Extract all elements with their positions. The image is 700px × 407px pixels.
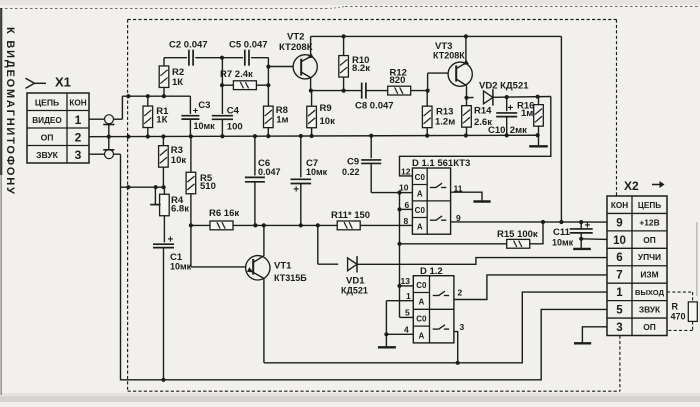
svg-text:2мк: 2мк xyxy=(510,125,527,136)
svg-text:13: 13 xyxy=(401,276,411,286)
svg-text:+: + xyxy=(293,184,299,195)
svg-text:ОП: ОП xyxy=(643,322,656,332)
svg-text:1К: 1К xyxy=(156,114,167,125)
svg-text:820: 820 xyxy=(390,75,406,86)
svg-text:КТ208К: КТ208К xyxy=(433,51,465,61)
svg-text:VT2: VT2 xyxy=(287,32,304,43)
svg-text:5: 5 xyxy=(405,308,410,318)
svg-text:11: 11 xyxy=(454,183,463,193)
svg-text:10мк: 10мк xyxy=(306,167,328,177)
svg-text:2: 2 xyxy=(75,130,82,144)
svg-text:КТ315Б: КТ315Б xyxy=(274,273,307,283)
svg-text:C8 0.047: C8 0.047 xyxy=(355,101,394,112)
svg-text:C4: C4 xyxy=(227,106,240,117)
svg-text:6: 6 xyxy=(405,200,410,210)
svg-text:470: 470 xyxy=(671,312,686,322)
svg-text:1: 1 xyxy=(406,291,411,301)
svg-text:10к: 10к xyxy=(171,155,187,166)
svg-text:1: 1 xyxy=(75,113,82,127)
svg-text:6.8к: 6.8к xyxy=(171,203,189,214)
svg-text:C0: C0 xyxy=(415,206,426,215)
svg-text:10мк: 10мк xyxy=(194,121,216,131)
svg-text:ОП: ОП xyxy=(643,235,656,245)
svg-text:C0: C0 xyxy=(415,173,426,182)
svg-text:А: А xyxy=(417,222,423,231)
svg-text:ЗВУК: ЗВУК xyxy=(36,150,59,160)
svg-text:C2 0.047: C2 0.047 xyxy=(169,40,208,51)
svg-text:100: 100 xyxy=(227,121,243,132)
svg-text:1.2м: 1.2м xyxy=(435,117,455,128)
svg-text:1м: 1м xyxy=(276,114,288,125)
svg-text:А: А xyxy=(417,189,423,198)
svg-text:C11: C11 xyxy=(553,227,571,238)
svg-text:4: 4 xyxy=(404,324,409,334)
svg-text:1м: 1м xyxy=(521,108,533,119)
svg-text:C0: C0 xyxy=(416,281,427,290)
svg-text:ВЫХОД: ВЫХОД xyxy=(635,288,665,297)
svg-text:+: + xyxy=(585,220,591,231)
svg-text:R11* 150: R11* 150 xyxy=(331,210,370,221)
svg-text:КОН: КОН xyxy=(69,98,86,107)
svg-text:3: 3 xyxy=(75,148,82,162)
svg-text:0.22: 0.22 xyxy=(342,167,360,177)
svg-text:1К: 1К xyxy=(172,77,183,88)
svg-text:3: 3 xyxy=(460,322,465,332)
svg-text:КТ208К: КТ208К xyxy=(279,42,313,53)
svg-text:R7 2.4к: R7 2.4к xyxy=(220,69,253,80)
svg-text:R15 100к: R15 100к xyxy=(497,229,538,240)
svg-text:C0: C0 xyxy=(416,315,427,324)
svg-text:D 1.1 561КТ3: D 1.1 561КТ3 xyxy=(412,158,470,169)
svg-text:VD2 КД521: VD2 КД521 xyxy=(479,81,529,92)
svg-text:8: 8 xyxy=(404,216,409,226)
svg-text:А: А xyxy=(419,331,425,340)
svg-text:10к: 10к xyxy=(320,116,336,127)
svg-text:УПЧИ: УПЧИ xyxy=(638,252,661,262)
svg-text:8.2к: 8.2к xyxy=(352,63,370,74)
svg-text:1: 1 xyxy=(616,287,623,299)
svg-text:R: R xyxy=(672,302,679,312)
svg-text:6: 6 xyxy=(616,252,622,264)
svg-text:+: + xyxy=(193,105,199,116)
svg-text:D 1.2: D 1.2 xyxy=(420,266,443,277)
svg-text:VT1: VT1 xyxy=(274,261,292,272)
svg-text:0.047: 0.047 xyxy=(258,167,281,177)
svg-text:ИЗМ: ИЗМ xyxy=(640,270,658,280)
svg-text:R6 16к: R6 16к xyxy=(209,208,239,219)
svg-text:+12В: +12В xyxy=(639,217,659,227)
svg-text:C9: C9 xyxy=(347,157,359,168)
svg-text:10мк: 10мк xyxy=(552,238,574,248)
svg-text:R14: R14 xyxy=(474,106,492,117)
svg-text:ЦЕПЬ: ЦЕПЬ xyxy=(638,201,661,210)
svg-text:5: 5 xyxy=(616,305,623,317)
svg-text:9: 9 xyxy=(616,217,622,229)
svg-text:ВИДЕО: ВИДЕО xyxy=(32,116,62,125)
svg-text:X1: X1 xyxy=(55,75,71,90)
svg-text:3: 3 xyxy=(616,322,622,334)
svg-text:КД521: КД521 xyxy=(341,286,368,296)
svg-text:510: 510 xyxy=(200,181,216,192)
svg-text:12: 12 xyxy=(401,167,411,177)
svg-text:X2: X2 xyxy=(624,179,639,193)
svg-text:КОН: КОН xyxy=(611,201,628,210)
svg-text:10: 10 xyxy=(613,235,626,247)
svg-text:R9: R9 xyxy=(320,103,332,114)
svg-text:ЦЕПЬ: ЦЕПЬ xyxy=(35,97,59,107)
svg-text:9: 9 xyxy=(456,213,461,223)
svg-text:10мк: 10мк xyxy=(170,262,192,272)
svg-text:C10: C10 xyxy=(488,125,505,136)
svg-text:2: 2 xyxy=(458,288,463,298)
svg-text:C3: C3 xyxy=(198,100,210,111)
svg-text:+: + xyxy=(508,103,514,114)
svg-text:ЗВУК: ЗВУК xyxy=(639,305,661,315)
svg-text:+: + xyxy=(168,235,174,246)
svg-text:7: 7 xyxy=(616,270,622,282)
svg-text:К ВИДЕОМАГНИТОФОНУ: К ВИДЕОМАГНИТОФОНУ xyxy=(4,27,16,196)
svg-text:А: А xyxy=(419,298,425,307)
svg-text:ОП: ОП xyxy=(41,132,54,142)
svg-text:C5 0.047: C5 0.047 xyxy=(229,40,268,51)
